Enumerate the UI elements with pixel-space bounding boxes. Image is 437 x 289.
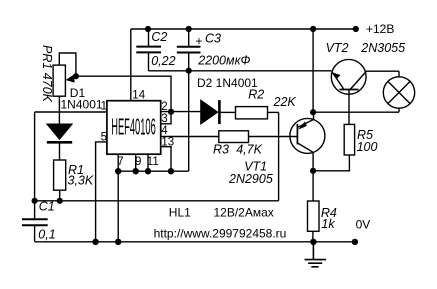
svg-text:PR1 470K: PR1 470K (40, 45, 54, 103)
wire C3 drop to ground bus (188, 53, 190, 172)
node pin11 (145, 168, 151, 174)
wire pin7 drop to bottom rail (117, 171, 119, 242)
wire D2 to R2 (220, 111, 236, 113)
wire top +12V rail (131, 28, 356, 30)
lamp HL1 (383, 77, 414, 108)
svg-text:1N4001: 1N4001 (61, 97, 103, 111)
svg-text:0,1: 0,1 (38, 228, 55, 242)
wire VT2 base to R5 (348, 90, 350, 125)
svg-text:C3: C3 (205, 32, 221, 46)
wire lamp bottom lead (398, 108, 400, 112)
node C2 top (145, 26, 151, 32)
svg-text:C1: C1 (39, 200, 55, 214)
ground symbol (305, 242, 327, 267)
svg-text:100: 100 (357, 140, 378, 154)
svg-text:22K: 22K (273, 95, 297, 109)
svg-text:4: 4 (161, 125, 168, 137)
wire timing node horizontal (35, 200, 279, 202)
svg-text:0V: 0V (356, 218, 371, 232)
node pin7 ground (115, 239, 121, 245)
svg-text:HL1: HL1 (169, 206, 191, 220)
label R3 4,7K (213, 142, 263, 156)
node timing C1 (31, 198, 37, 204)
wire R2 feedback vertical (278, 112, 280, 200)
svg-text:11: 11 (147, 156, 159, 168)
transistor VT1 2N2905 (290, 118, 325, 153)
svg-text:2200мкФ: 2200мкФ (197, 54, 250, 68)
svg-text:14: 14 (132, 89, 145, 101)
node VT1 emitter (310, 109, 316, 115)
wire R2 right (268, 111, 279, 113)
resistor R3 (219, 131, 249, 143)
svg-text:R2: R2 (248, 88, 264, 102)
transistor VT2 2N3055 (331, 59, 366, 94)
svg-text:9: 9 (135, 156, 141, 168)
svg-text:http://www.299792458.ru: http://www.299792458.ru (154, 226, 287, 240)
wire ground bus under IC (118, 170, 189, 172)
svg-text:12В/2Амах: 12В/2Амах (214, 206, 274, 220)
wire D1 column (58, 96, 60, 124)
svg-text:3,3K: 3,3K (68, 174, 94, 188)
diode D2 (201, 100, 220, 124)
node pin13 (168, 168, 174, 174)
svg-text:1: 1 (101, 100, 107, 112)
wire PR1 wiper feedback (76, 76, 171, 124)
node R1 bottom (57, 198, 63, 204)
wire pin14 drop (130, 29, 132, 101)
svg-text:C2: C2 (151, 30, 167, 44)
wire C2 bottom lead (148, 52, 150, 70)
resistor R1 (54, 160, 66, 190)
svg-text:VT2: VT2 (326, 41, 349, 55)
wire R5 bottom connector (313, 155, 349, 171)
wire 0V horizontal to VT2 emitter (149, 70, 332, 72)
node VT1 collector (310, 168, 316, 174)
wire R3 to VT1 base (249, 136, 298, 138)
wire pin9 stub (135, 154, 137, 171)
potentiometer PR1 (53, 65, 75, 96)
wire left vertical to C1 (34, 112, 36, 219)
capacitor C2 (136, 47, 161, 53)
svg-text:+12В: +12В (366, 22, 394, 36)
node +12V terminal (353, 26, 359, 32)
wire pin7 stub (117, 154, 119, 171)
label R1 3,3K (68, 163, 94, 188)
wire lamp bottom horizontal (313, 111, 399, 113)
svg-text:3: 3 (161, 113, 167, 125)
resistor R5 (344, 124, 354, 155)
svg-text:0,22: 0,22 (151, 54, 175, 68)
wire D1 to R1 (59, 143, 61, 160)
wire pin1 (35, 111, 107, 113)
label R5 100 (357, 128, 378, 154)
node C3 top (186, 26, 192, 32)
svg-text:1k: 1k (321, 217, 335, 231)
svg-text:2N3055: 2N3055 (360, 41, 405, 55)
IC U1 HEF40106 (107, 101, 161, 155)
svg-text:HEF40106: HEF40106 (111, 114, 156, 140)
wire pin11 stub (147, 154, 149, 171)
node pin7 (115, 168, 121, 174)
wire VT2 collector to lamp (366, 70, 399, 72)
node pin9 (133, 168, 139, 174)
wire PR1 top loop (59, 53, 76, 76)
svg-text:5: 5 (101, 131, 107, 143)
svg-text:+: + (196, 34, 203, 48)
label R4 1k (321, 206, 337, 231)
svg-text:R3: R3 (213, 142, 229, 156)
capacitor C3 (177, 47, 201, 53)
resistor R4 (308, 201, 320, 231)
wire lamp top lead (398, 71, 400, 77)
resistor R2 (236, 107, 268, 119)
wire R1 bottom lead (59, 190, 61, 201)
node PR1 wiper (73, 73, 79, 79)
diode D1 (47, 124, 72, 142)
wire pin13 stub (161, 147, 171, 172)
node +12V drop (310, 26, 316, 32)
wire pin5 to ground (96, 142, 107, 242)
svg-text:7: 7 (117, 156, 123, 168)
wire +12V drop to VT1 emitter node (312, 29, 314, 112)
wire VT1 emitter lead (313, 112, 315, 119)
wire VT1 collector lead down (312, 152, 314, 201)
wire pin2 to D2 (161, 111, 201, 113)
svg-text:4,7K: 4,7K (236, 142, 262, 156)
node R4 ground (310, 239, 316, 245)
wire C2 top lead (148, 29, 150, 47)
svg-text:2: 2 (161, 101, 167, 113)
node pins 2-3 (168, 109, 174, 115)
svg-text:13: 13 (161, 136, 174, 148)
svg-text:2N2905: 2N2905 (228, 172, 273, 186)
capacitor C1 (22, 219, 48, 225)
wire C3 top lead (188, 29, 190, 47)
wire R4 bottom lead (312, 231, 314, 242)
node pin5 ground (92, 239, 98, 245)
node C3 bottom (186, 68, 192, 74)
wire pin4 to R3 (161, 136, 219, 138)
wire bottom 0V rail (35, 241, 355, 243)
node 0V terminal (352, 239, 358, 245)
wire C1 bottom lead (34, 225, 36, 242)
